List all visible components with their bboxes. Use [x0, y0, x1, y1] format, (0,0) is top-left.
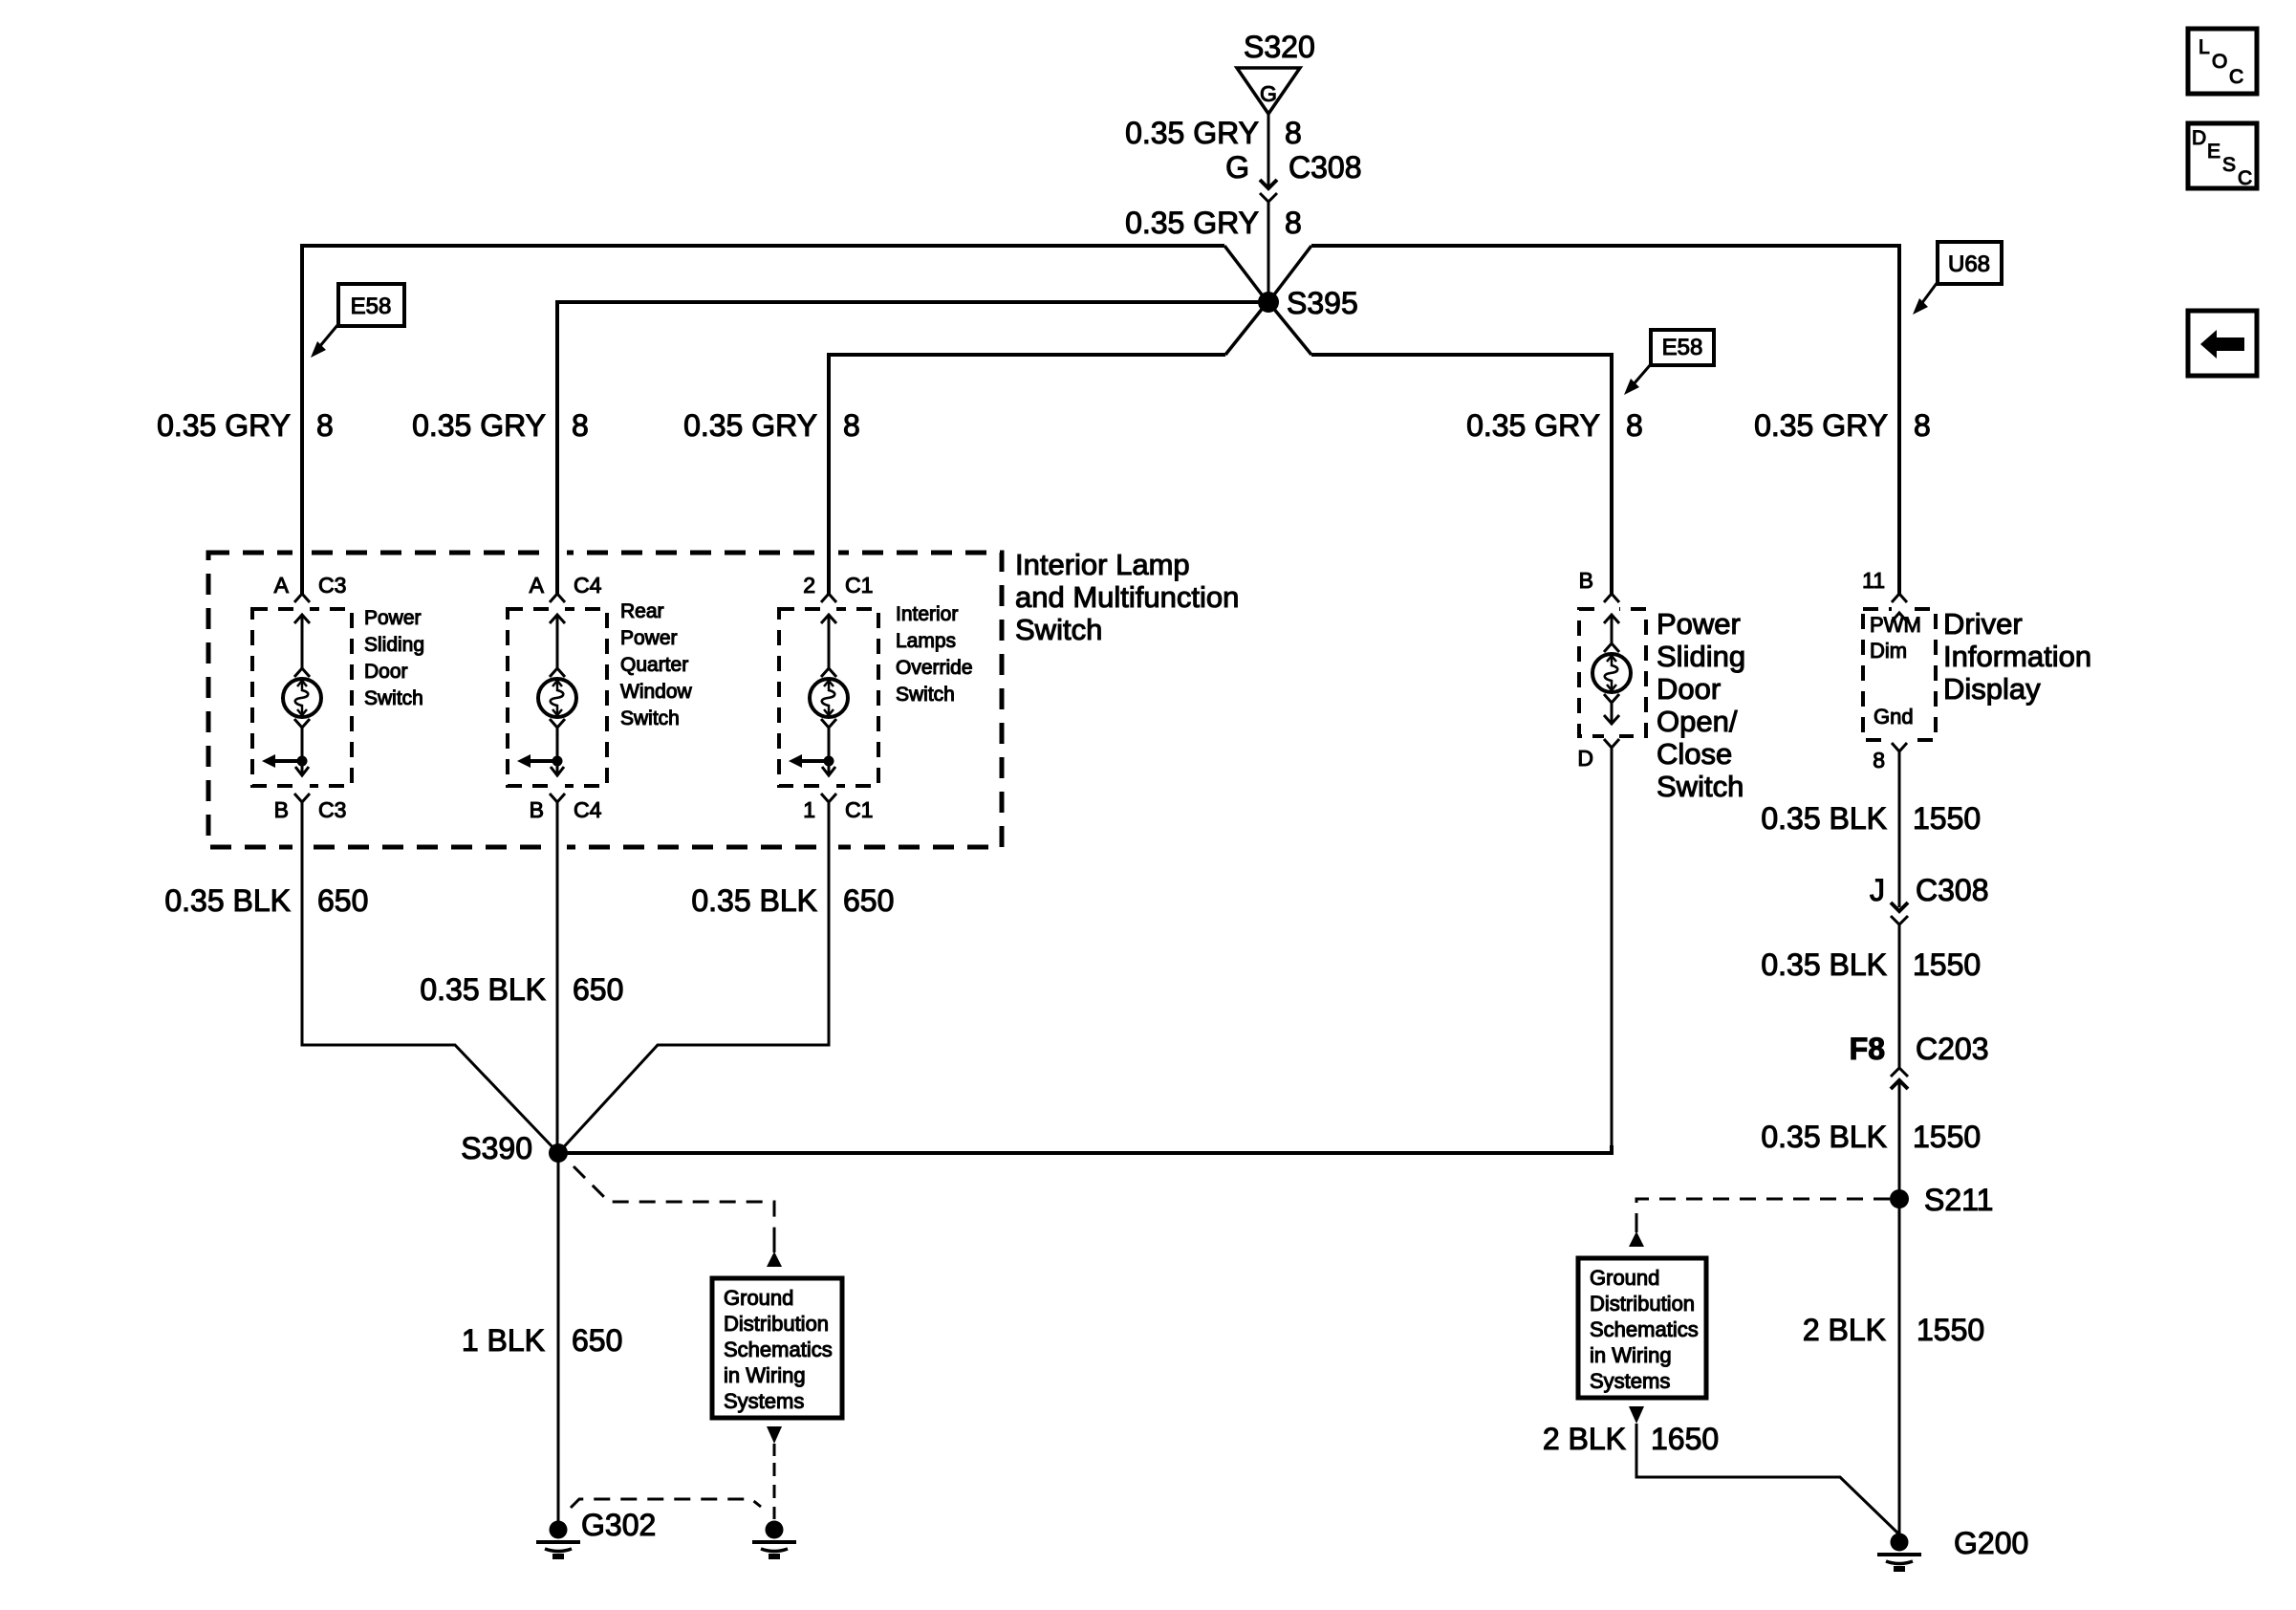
label 0.35 GRY 8 (lower segment) — [1125, 206, 1302, 240]
svg-text:Information: Information — [1943, 640, 2091, 673]
power sliding door switch box gaps — [294, 604, 310, 614]
connector callout E58 right — [1624, 330, 1714, 395]
driver information display box gaps — [1892, 604, 1907, 614]
svg-text:Window: Window — [620, 681, 693, 703]
svg-text:0.35 BLK: 0.35 BLK — [164, 883, 291, 918]
pin A C3 — [274, 573, 347, 602]
svg-text:E: E — [2207, 141, 2220, 163]
svg-text:Power: Power — [364, 607, 422, 629]
driver information display pin names — [1870, 613, 1921, 729]
svg-text:1 BLK: 1 BLK — [462, 1323, 545, 1358]
svg-text:1650: 1650 — [1651, 1422, 1719, 1456]
svg-text:B: B — [274, 797, 289, 822]
label 2 BLK 1550 — [1803, 1313, 1984, 1347]
svg-text:8: 8 — [1285, 116, 1302, 150]
ground G200 — [1877, 1526, 2028, 1569]
pin 8 (driver information display) — [1873, 743, 1907, 907]
power sliding door open/close switch contact arrow down — [1604, 694, 1619, 724]
svg-text:F8: F8 — [1850, 1032, 1885, 1066]
wire bus S395 lower-right to switch drop — [1268, 302, 1311, 355]
svg-text:Switch: Switch — [896, 684, 955, 706]
svg-text:Interior: Interior — [896, 603, 958, 625]
svg-text:B: B — [1579, 568, 1593, 593]
svg-text:J: J — [1870, 873, 1885, 907]
svg-text:1550: 1550 — [1913, 1120, 1981, 1154]
power sliding door switch box — [252, 609, 352, 786]
svg-text:Systems: Systems — [1590, 1369, 1670, 1393]
wire ground distribution box to G200 — [1636, 1436, 1899, 1534]
label 0.35 BLK 650 (from B C4) — [420, 972, 623, 1007]
pin 2 C1 — [803, 573, 873, 602]
svg-text:D: D — [2192, 127, 2206, 149]
svg-text:Dim: Dim — [1870, 639, 1907, 663]
svg-text:C1: C1 — [845, 797, 873, 822]
wire bus S395 upper-right to DID drop — [1268, 246, 1311, 302]
svg-text:Ground: Ground — [1590, 1266, 1659, 1290]
power sliding door switch contact arrow up — [294, 615, 310, 677]
svg-text:L: L — [2199, 36, 2210, 58]
pin 1 C1 — [803, 794, 873, 1037]
svg-text:0.35 GRY: 0.35 GRY — [683, 408, 817, 443]
svg-text:Switch: Switch — [1657, 770, 1744, 803]
wire S211 to G200 — [1898, 1199, 1901, 1534]
svg-text:Power: Power — [1657, 607, 1741, 641]
svg-text:8: 8 — [572, 408, 589, 443]
wire bus S395 lower-left to C1 drop — [1225, 302, 1267, 355]
svg-text:Close: Close — [1657, 737, 1732, 771]
power sliding door switch label — [364, 607, 424, 709]
svg-text:C3: C3 — [318, 573, 346, 598]
svg-text:S390: S390 — [461, 1131, 532, 1165]
svg-text:8: 8 — [1873, 748, 1885, 772]
svg-text:B: B — [530, 797, 544, 822]
svg-text:C4: C4 — [574, 573, 602, 598]
svg-text:PWM: PWM — [1870, 613, 1921, 637]
pin B C3 — [274, 794, 347, 1037]
svg-text:Door: Door — [364, 661, 408, 683]
svg-text:Schematics: Schematics — [724, 1338, 833, 1361]
ground G302 — [536, 1508, 656, 1556]
svg-text:11: 11 — [1862, 568, 1885, 593]
svg-text:0.35 BLK: 0.35 BLK — [1761, 1120, 1887, 1154]
rear power quarter window switch box — [508, 609, 607, 786]
svg-text:8: 8 — [1626, 408, 1643, 443]
power sliding door open/close switch box gaps — [1604, 604, 1619, 614]
svg-text:O: O — [2212, 51, 2227, 73]
svg-text:1: 1 — [803, 797, 815, 822]
interior lamp and multifunction switch outline box — [208, 553, 1002, 847]
label 0.35 GRY 8 (C3 drop) — [157, 408, 334, 443]
svg-text:C3: C3 — [318, 797, 346, 822]
svg-text:0.35 BLK: 0.35 BLK — [1761, 801, 1887, 836]
label 1 BLK 650 — [462, 1323, 623, 1358]
wire C308 to S395 — [1267, 202, 1270, 302]
label 2 BLK 1650 — [1543, 1422, 1719, 1456]
label 0.35 BLK 650 (from B C3) — [164, 883, 368, 918]
svg-text:C4: C4 — [574, 797, 602, 822]
svg-text:Systems: Systems — [724, 1389, 804, 1413]
svg-text:0.35 GRY: 0.35 GRY — [157, 408, 291, 443]
wire S390 to G302 — [557, 1153, 560, 1522]
svg-text:Switch: Switch — [1015, 613, 1102, 646]
svg-text:0.35 BLK: 0.35 BLK — [691, 883, 817, 918]
svg-text:8: 8 — [1914, 408, 1931, 443]
driver information display box — [1863, 609, 1936, 740]
interior lamps override switch box — [779, 609, 878, 786]
svg-text:0.35 GRY: 0.35 GRY — [1754, 408, 1888, 443]
svg-text:Open/: Open/ — [1657, 705, 1738, 738]
wire B C3 to S390 — [302, 1037, 558, 1153]
svg-text:8: 8 — [1285, 206, 1302, 240]
svg-text:D: D — [1577, 746, 1593, 771]
wire bus S395 left to C4 drop — [565, 300, 1268, 304]
ground distribution schematics box (left) — [712, 1278, 842, 1418]
svg-text:U68: U68 — [1948, 251, 1990, 277]
svg-text:Sliding: Sliding — [1657, 640, 1745, 673]
svg-text:Rear: Rear — [620, 600, 664, 622]
unnamed ground (left) — [752, 1521, 796, 1557]
svg-text:8: 8 — [843, 408, 860, 443]
label 0.35 GRY 8 (DID drop) — [1754, 408, 1931, 443]
power sliding door open/close switch contact arrow up — [1604, 615, 1619, 652]
svg-text:0.35 GRY: 0.35 GRY — [1125, 206, 1259, 240]
rear power quarter window switch wiper — [517, 719, 565, 775]
svg-text:8: 8 — [316, 408, 334, 443]
svg-text:E58: E58 — [1662, 335, 1703, 360]
reference arrow up (above left ground distribution box) — [767, 1235, 782, 1267]
pin D — [1577, 739, 1619, 1153]
interior lamps override switch box gaps — [821, 604, 836, 614]
svg-text:Override: Override — [896, 657, 973, 679]
pin A C4 — [530, 573, 602, 602]
svg-text:in Wiring: in Wiring — [1590, 1343, 1672, 1367]
rear power quarter window switch label — [620, 600, 693, 729]
svg-text:0.35 BLK: 0.35 BLK — [1761, 947, 1887, 982]
svg-text:0.35 GRY: 0.35 GRY — [412, 408, 546, 443]
label 0.35 BLK 1550 (DID ground segment) — [1761, 801, 1981, 836]
svg-text:Lamps: Lamps — [896, 630, 956, 652]
svg-text:Schematics: Schematics — [1590, 1317, 1699, 1341]
svg-text:Gnd: Gnd — [1874, 705, 1914, 729]
svg-text:Switch: Switch — [364, 687, 423, 709]
ground reference triangle S320 — [1237, 30, 1315, 114]
svg-text:Quarter: Quarter — [620, 654, 688, 676]
pin B (power sliding door open/close switch) — [1579, 568, 1619, 602]
svg-text:G: G — [1225, 150, 1249, 185]
label 0.35 BLK 1550 (lower segment) — [1761, 1120, 1981, 1154]
svg-text:Switch: Switch — [620, 707, 680, 729]
svg-text:S: S — [2222, 154, 2236, 176]
DESC index box — [2188, 123, 2257, 189]
svg-text:0.35 GRY: 0.35 GRY — [1125, 116, 1259, 150]
svg-text:C: C — [2229, 66, 2243, 88]
svg-text:C: C — [2238, 167, 2252, 189]
navigation left-arrow box — [2188, 311, 2257, 376]
dashed wire to unnamed ground — [773, 1463, 776, 1519]
svg-text:1550: 1550 — [1913, 801, 1981, 836]
svg-text:Ground: Ground — [724, 1286, 793, 1310]
svg-text:2 BLK: 2 BLK — [1803, 1313, 1886, 1347]
svg-text:0.35 BLK: 0.35 BLK — [420, 972, 546, 1007]
svg-text:Sliding: Sliding — [364, 634, 424, 656]
interior lamps override switch lamp — [810, 679, 848, 717]
svg-text:Door: Door — [1657, 672, 1721, 706]
svg-text:C308: C308 — [1289, 150, 1362, 185]
in-line connector F8 C203 — [1850, 1032, 1989, 1089]
wire S320 to connector C308 — [1267, 114, 1270, 188]
splice S211 — [1890, 1183, 1993, 1217]
big box dash gaps at pin crossings — [292, 547, 312, 557]
label 0.35 GRY 8 (top segment) — [1125, 116, 1302, 150]
wire bus S395 upper-left to C3 drop — [1224, 246, 1267, 302]
reference arrow down (below left ground distribution box) — [767, 1426, 782, 1456]
label 0.35 BLK 1550 (middle segment) — [1761, 947, 1981, 982]
splice S390 — [461, 1131, 568, 1165]
connector callout E58 left — [311, 284, 404, 358]
svg-text:C308: C308 — [1916, 873, 1989, 907]
svg-text:and Multifunction: and Multifunction — [1015, 580, 1239, 614]
in-line connector G C308 — [1225, 150, 1361, 202]
svg-text:2 BLK: 2 BLK — [1543, 1422, 1626, 1456]
svg-text:C203: C203 — [1916, 1032, 1989, 1066]
reference arrow up (above right ground distribution box) — [1629, 1215, 1644, 1247]
svg-text:A: A — [274, 573, 290, 598]
LOC index box — [2188, 29, 2257, 94]
svg-text:G200: G200 — [1954, 1526, 2028, 1560]
svg-text:Distribution: Distribution — [1590, 1292, 1695, 1316]
label 0.35 BLK 650 (from 1 C1) — [691, 883, 894, 918]
svg-text:E58: E58 — [351, 294, 392, 319]
power sliding door open/close switch lamp — [1592, 654, 1631, 692]
svg-text:Display: Display — [1943, 672, 2041, 706]
connector callout U68 — [1913, 242, 2002, 315]
wire S390 to D pin riser — [558, 1145, 1612, 1153]
label 0.35 GRY 8 (right switch drop) — [1466, 408, 1643, 443]
svg-text:650: 650 — [573, 972, 623, 1007]
svg-text:Distribution: Distribution — [724, 1312, 829, 1336]
svg-text:1550: 1550 — [1917, 1313, 1984, 1347]
label 0.35 GRY 8 (C1 drop) — [683, 408, 860, 443]
reference arrow down (below right ground distribution box) — [1629, 1406, 1644, 1436]
wire J C308 to F8 C203 — [1898, 925, 1901, 1068]
svg-text:S211: S211 — [1924, 1183, 1993, 1217]
svg-text:650: 650 — [317, 883, 368, 918]
svg-text:2: 2 — [803, 573, 815, 598]
svg-text:Driver: Driver — [1943, 607, 2023, 641]
svg-text:Power: Power — [620, 627, 678, 649]
dashed tie G302 to unnamed ground — [571, 1499, 761, 1508]
svg-text:G302: G302 — [581, 1508, 656, 1542]
power sliding door open/close switch label — [1657, 607, 1745, 803]
svg-text:S320: S320 — [1244, 30, 1315, 64]
power sliding door open/close switch box — [1579, 609, 1646, 736]
pin B C4 — [530, 794, 602, 1153]
svg-text:0.35 GRY: 0.35 GRY — [1466, 408, 1600, 443]
rear power quarter window switch box gaps — [550, 604, 565, 614]
power sliding door switch wiper — [262, 719, 310, 775]
svg-text:S395: S395 — [1287, 286, 1358, 320]
svg-text:650: 650 — [843, 883, 894, 918]
wire 1 C1 to S390 — [558, 1037, 829, 1153]
wire F8 C203 to S211 — [1898, 1080, 1901, 1199]
svg-text:A: A — [530, 573, 545, 598]
rear power quarter window switch contact arrow up — [550, 615, 565, 677]
interior lamps override switch contact arrow up — [821, 615, 836, 677]
svg-text:1550: 1550 — [1913, 947, 1981, 982]
interior lamp and multifunction switch title — [1015, 548, 1239, 646]
rear power quarter window switch lamp — [538, 679, 576, 717]
svg-text:Interior Lamp: Interior Lamp — [1015, 548, 1190, 581]
dashed reference from S211 to ground distribution box — [1636, 1199, 1890, 1215]
driver information display title — [1943, 607, 2091, 706]
ground distribution schematics box (right) — [1578, 1258, 1706, 1398]
pin 11 (driver information display) — [1862, 568, 1907, 602]
svg-text:in Wiring: in Wiring — [724, 1363, 806, 1387]
svg-text:C1: C1 — [845, 573, 873, 598]
in-line connector J C308 — [1870, 873, 1989, 925]
svg-text:650: 650 — [572, 1323, 622, 1358]
interior lamps override switch wiper — [789, 719, 836, 775]
power sliding door switch lamp — [283, 679, 321, 717]
dashed reference from S390 to ground distribution box — [574, 1166, 774, 1235]
interior lamps override switch label — [896, 603, 973, 706]
splice S395 — [1258, 286, 1358, 320]
label 0.35 GRY 8 (C4 drop) — [412, 408, 589, 443]
svg-text:G: G — [1260, 81, 1277, 106]
